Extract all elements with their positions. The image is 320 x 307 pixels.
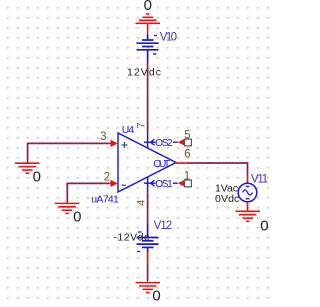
wire V12 to ground bbox=[147, 264, 149, 282]
svg-text:U4: U4 bbox=[122, 124, 135, 136]
svg-text:V12: V12 bbox=[154, 220, 173, 232]
wire V10 to pin 7 bbox=[147, 62, 149, 132]
svg-text:5: 5 bbox=[184, 130, 190, 142]
svg-text:3: 3 bbox=[100, 131, 106, 143]
svg-text:V11: V11 bbox=[251, 174, 268, 186]
V11 red bottom pin stub bbox=[247, 202, 249, 211]
svg-text:0Vdc: 0Vdc bbox=[215, 193, 239, 205]
voltage source V10 bbox=[137, 35, 159, 63]
pin OS1 line bbox=[144, 182, 156, 184]
svg-text:OS2: OS2 bbox=[155, 138, 173, 149]
pin OS2 line bbox=[144, 141, 156, 143]
svg-text:uA741: uA741 bbox=[91, 194, 119, 206]
V10 minus mark bbox=[153, 53, 157, 55]
V11 sine wave bbox=[243, 190, 253, 195]
svg-text:12Vdc: 12Vdc bbox=[127, 67, 161, 79]
wire pin3 to ground bbox=[28, 143, 109, 162]
plus input mark bbox=[122, 142, 128, 148]
pin 5 square bbox=[185, 139, 192, 146]
wire pin4 to V12 bbox=[147, 192, 149, 223]
pin 3 red stub and arrow bbox=[109, 142, 113, 144]
OS1 wedge bbox=[151, 180, 155, 186]
V12 plus mark bbox=[137, 251, 140, 253]
pin 1 square bbox=[185, 180, 192, 187]
V11 plus mark bbox=[246, 185, 250, 187]
ground 0 (left lower) bbox=[55, 203, 80, 213]
pin 6 red stub bbox=[176, 162, 188, 164]
svg-text:0: 0 bbox=[152, 287, 160, 304]
OS2 wedge bbox=[151, 139, 155, 145]
voltage source V12 (rotated 180) bbox=[137, 224, 159, 252]
V11 red top pin stub bbox=[247, 175, 249, 183]
pin 1 arrow bbox=[178, 180, 185, 187]
svg-text:0: 0 bbox=[33, 169, 41, 186]
V11 minus mark bbox=[246, 198, 250, 200]
AC source V11 bbox=[238, 183, 257, 202]
svg-text:6: 6 bbox=[184, 149, 190, 161]
svg-text:0: 0 bbox=[73, 209, 81, 226]
svg-text:4: 4 bbox=[136, 200, 148, 206]
ground 0 (bottom) bbox=[136, 283, 161, 293]
V12 red pin stub bbox=[147, 252, 149, 264]
minus input mark bbox=[122, 184, 126, 186]
svg-text:2: 2 bbox=[104, 171, 110, 183]
svg-text:V10: V10 bbox=[160, 32, 177, 44]
pin 2 red stub and arrow bbox=[109, 182, 113, 184]
svg-text:1: 1 bbox=[184, 170, 190, 182]
op-amp U4 uA741 bbox=[118, 133, 176, 192]
pin 5 arrow bbox=[178, 139, 185, 146]
ground 0 (top, flipped) bbox=[136, 14, 161, 35]
V12 minus mark bbox=[138, 231, 142, 233]
svg-text:7: 7 bbox=[136, 122, 148, 128]
wire OUT to V11 bbox=[188, 163, 248, 175]
wire pin2 to ground bbox=[67, 183, 109, 202]
ground 0 (left upper) bbox=[15, 163, 40, 173]
svg-text:0: 0 bbox=[260, 218, 268, 235]
V10 plus mark bbox=[154, 35, 157, 37]
svg-text:OUT: OUT bbox=[153, 158, 171, 170]
ground 0 (right) bbox=[236, 211, 261, 221]
svg-text:-12Vdc: -12Vdc bbox=[113, 231, 149, 243]
svg-text:0: 0 bbox=[144, 0, 152, 14]
svg-text:OS1: OS1 bbox=[155, 179, 173, 190]
pin 7 stub bbox=[147, 132, 149, 148]
pin 4 stub bbox=[147, 177, 149, 192]
